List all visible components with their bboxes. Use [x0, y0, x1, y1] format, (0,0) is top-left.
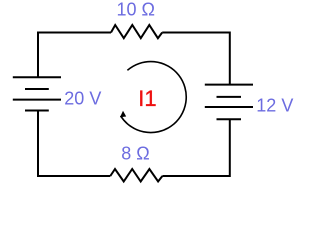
battery 20V: plate 2 short: [25, 88, 49, 90]
svg-text:12 V: 12 V: [256, 96, 293, 116]
mesh current loop arrow I1 (clockwise arc with arrowhead at lower left): [120, 62, 186, 133]
svg-text:I1: I1: [138, 86, 156, 111]
wire from 8-ohm resistor through bottom-left corner up to 20V battery: [38, 111, 110, 177]
wire from 20V battery top plate up through top-left corner to 10-ohm resistor: [38, 33, 111, 79]
wire from 12V battery bottom plate through bottom-right corner to 8-ohm resistor: [162, 119, 229, 176]
battery 20V (left): plate 1 long: [13, 76, 61, 78]
battery 12V: plate 4 short: [217, 118, 242, 120]
label 20 V value: [64, 88, 101, 108]
svg-text:10 Ω: 10 Ω: [117, 0, 155, 19]
label 8 ohm value: [121, 144, 149, 164]
battery 12V (right): plate 1 long: [205, 84, 253, 86]
svg-text:8 Ω: 8 Ω: [121, 144, 149, 164]
wire from 10-ohm resistor through top-right corner down to 12V battery: [162, 33, 230, 85]
resistor 10 ohm (top): [111, 25, 162, 38]
battery 20V: plate 3 long: [13, 99, 61, 101]
battery 20V: plate 4 short: [25, 110, 49, 112]
label 10 ohm value: [117, 0, 155, 19]
battery 12V: plate 2 short: [217, 96, 242, 98]
label I1 mesh current: [138, 86, 156, 111]
label 12 V value: [256, 96, 293, 116]
battery 12V: plate 3 long: [205, 106, 253, 108]
resistor 8 ohm (bottom): [110, 169, 162, 182]
svg-text:20 V: 20 V: [64, 88, 101, 108]
